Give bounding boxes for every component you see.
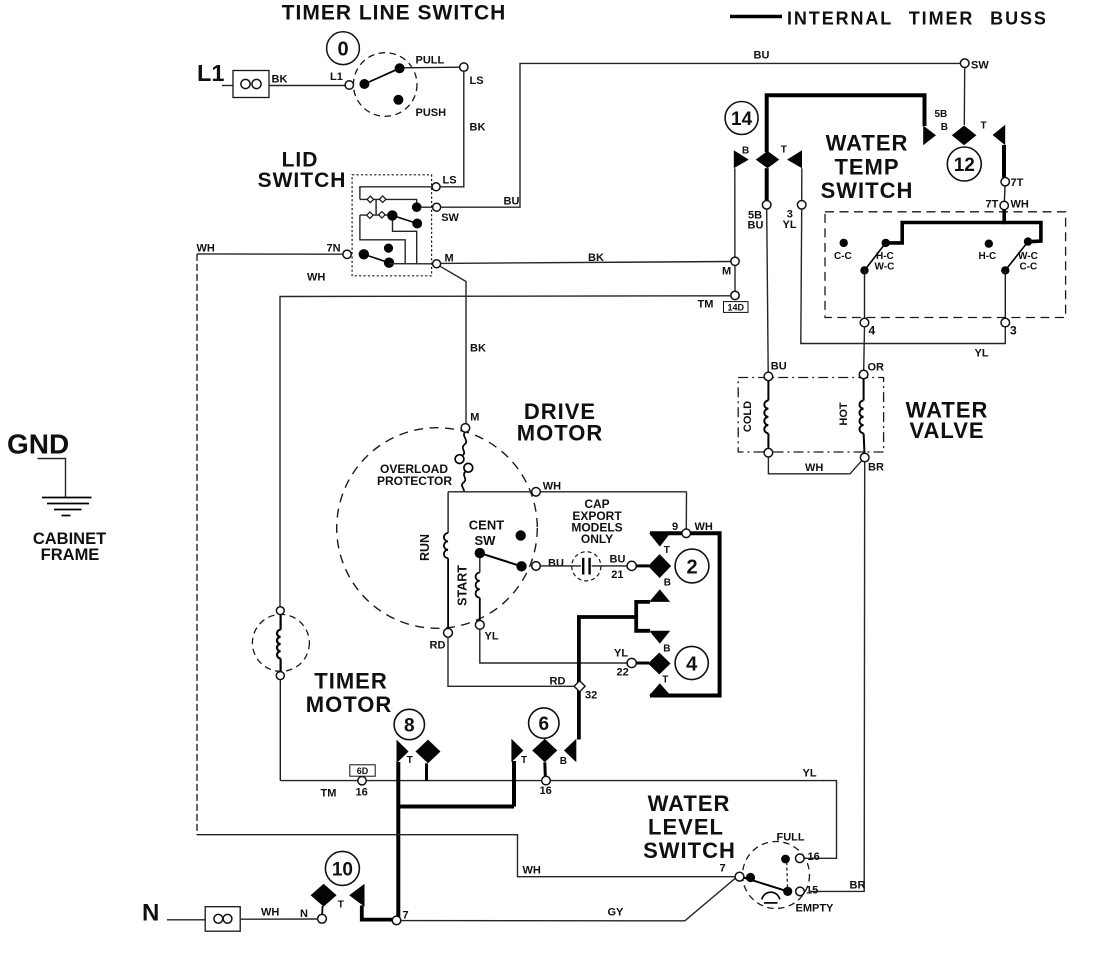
node 7 bottom xyxy=(392,916,401,925)
wire BK M down to motor xyxy=(440,266,466,424)
wire to LS xyxy=(405,66,460,69)
svg-text:YL: YL xyxy=(803,768,817,780)
svg-text:CENT: CENT xyxy=(469,518,504,533)
wire GY node7 to water level xyxy=(401,878,736,921)
svg-text:WH: WH xyxy=(307,272,325,284)
node L1 xyxy=(345,81,353,89)
node WH motor xyxy=(532,488,541,497)
svg-text:BU: BU xyxy=(548,558,564,570)
buss diamond6 stub xyxy=(543,762,547,776)
capacitor plates xyxy=(583,558,589,575)
pressure dome xyxy=(762,892,780,899)
svg-text:L1: L1 xyxy=(330,71,343,83)
buss wire contact14 to contact12 xyxy=(767,95,925,152)
node OR valve xyxy=(859,370,868,379)
contact dot H-C W-C xyxy=(882,239,890,247)
wire L1 lead xyxy=(222,85,233,87)
svg-text:M: M xyxy=(722,266,731,278)
svg-text:PUSH: PUSH xyxy=(416,107,447,119)
contact 6 left triangle xyxy=(511,739,523,763)
wire BU to water valve xyxy=(767,209,769,372)
wire lid bottom to M xyxy=(389,263,433,265)
ground symbol xyxy=(42,498,92,516)
wire SW down to contact 12 xyxy=(963,68,965,126)
svg-text:LEVEL: LEVEL xyxy=(648,815,724,840)
contact dot full xyxy=(781,855,790,864)
svg-text:WATER: WATER xyxy=(826,131,909,156)
wire YL to node 22 xyxy=(480,629,627,663)
dashed link full empty xyxy=(786,862,789,888)
svg-text:RUN: RUN xyxy=(418,534,432,561)
wire pivot to START coil xyxy=(479,558,481,573)
connector plug L1 xyxy=(233,71,269,98)
node 3 temp xyxy=(1001,318,1010,327)
node 32 diamond xyxy=(574,681,585,692)
wire WH plug to N node xyxy=(240,918,318,920)
svg-text:16: 16 xyxy=(808,851,820,863)
contact terminal small diamond d xyxy=(379,212,386,219)
lever 7N xyxy=(364,254,389,262)
contact 2 diamond xyxy=(648,554,671,578)
circle contact 6 xyxy=(529,708,559,738)
svg-text:PULL: PULL xyxy=(416,55,445,67)
contact 12 right triangle xyxy=(993,125,1006,146)
svg-text:22: 22 xyxy=(617,667,629,679)
wire BK L1 to switch xyxy=(269,85,345,87)
contact 12 left triangle xyxy=(923,126,936,146)
wire capacitor to node 21 xyxy=(592,565,627,567)
wire link rows xyxy=(375,199,377,215)
svg-text:32: 32 xyxy=(585,689,597,701)
water temp switch dashed box xyxy=(825,212,1066,318)
wire lid row1 xyxy=(360,187,432,200)
svg-text:0: 0 xyxy=(337,39,348,61)
svg-text:H-C: H-C xyxy=(979,251,997,262)
node 6D xyxy=(358,777,366,785)
wire WH left vertical xyxy=(196,254,198,835)
svg-text:7: 7 xyxy=(403,909,409,921)
contact dot floating xyxy=(384,244,393,253)
svg-text:7T: 7T xyxy=(1011,177,1024,189)
node 9 xyxy=(682,529,691,538)
contact 4 top triangle xyxy=(649,631,670,644)
contact 2 bottom triangle xyxy=(649,589,670,602)
buss branch to contact 6 xyxy=(579,617,638,740)
svg-text:WH: WH xyxy=(543,481,561,493)
svg-text:B: B xyxy=(663,644,670,655)
contact dot empty xyxy=(783,887,792,896)
coil timer motor xyxy=(277,615,281,672)
connector plug N xyxy=(205,907,240,932)
buss diamond8 stub xyxy=(425,763,428,780)
wire RD to node 32 xyxy=(448,637,575,686)
cent sw contact dot xyxy=(516,561,526,571)
svg-text:WH: WH xyxy=(805,462,823,474)
svg-text:TEMP: TEMP xyxy=(834,155,899,180)
contact 6 right triangle xyxy=(564,739,576,763)
contact terminal small diamond b xyxy=(379,196,386,203)
node N xyxy=(318,914,327,923)
lever right temp xyxy=(1005,242,1028,271)
wire BU to capacitor xyxy=(540,565,581,567)
svg-text:SW: SW xyxy=(971,60,989,72)
svg-text:16: 16 xyxy=(356,787,368,799)
svg-text:BU: BU xyxy=(748,220,764,232)
svg-text:6: 6 xyxy=(539,714,550,735)
contact 10 right triangle xyxy=(349,884,364,907)
wire contact14 right triangle down xyxy=(801,168,803,200)
contact dot bottom xyxy=(384,258,394,268)
node M right xyxy=(731,257,739,265)
svg-text:ONLY: ONLY xyxy=(581,532,613,546)
coil RUN xyxy=(444,533,448,628)
contact 10 diamond xyxy=(311,884,337,907)
contact 4 diamond xyxy=(648,653,671,675)
svg-text:BU: BU xyxy=(754,50,770,62)
svg-text:T: T xyxy=(781,145,787,156)
svg-text:WH: WH xyxy=(1011,199,1029,211)
node BU valve xyxy=(764,372,773,381)
buss horizontal 8 to 6 xyxy=(397,805,514,809)
svg-text:EMPTY: EMPTY xyxy=(796,903,835,915)
svg-text:BU: BU xyxy=(610,554,626,566)
coil COLD xyxy=(764,381,768,449)
svg-text:3: 3 xyxy=(1010,324,1017,338)
svg-text:8: 8 xyxy=(404,716,415,737)
svg-text:N: N xyxy=(300,908,308,920)
contact 6 diamond xyxy=(532,739,557,763)
svg-text:YL: YL xyxy=(614,648,628,660)
svg-text:12: 12 xyxy=(954,155,975,176)
wire BU lid SW to temp SW xyxy=(441,63,961,207)
svg-text:7: 7 xyxy=(720,863,726,875)
contact dot row3 xyxy=(387,210,397,220)
node 21 xyxy=(627,561,636,570)
coil START xyxy=(476,573,480,621)
svg-text:15: 15 xyxy=(806,885,818,897)
buss contact8 vertical long xyxy=(396,762,400,919)
contact 4 bottom triangle xyxy=(649,683,670,695)
svg-text:T: T xyxy=(338,900,344,911)
svg-text:PROTECTOR: PROTECTOR xyxy=(377,474,452,488)
buss wire inside temp box left xyxy=(889,223,1004,243)
wire OR node4 to valve xyxy=(863,327,866,370)
svg-text:FULL: FULL xyxy=(777,832,805,844)
svg-text:BK: BK xyxy=(272,74,288,86)
contact dot common left xyxy=(860,266,868,274)
buss stub node21 to diamond2 xyxy=(637,564,650,567)
svg-text:LS: LS xyxy=(470,75,484,87)
contact dot H-C xyxy=(985,240,993,248)
node 7N xyxy=(343,250,351,258)
wire WH to water level xyxy=(197,835,735,877)
svg-text:2: 2 xyxy=(686,556,697,578)
node 15 xyxy=(796,887,805,896)
svg-text:14D: 14D xyxy=(727,302,744,312)
lever left temp xyxy=(865,243,886,271)
circle contact 10 xyxy=(325,851,359,885)
contact dot PULL xyxy=(395,63,405,73)
svg-text:BK: BK xyxy=(588,252,604,264)
node 7 waterlevel xyxy=(735,872,744,881)
svg-text:GY: GY xyxy=(608,906,625,918)
svg-text:C-C: C-C xyxy=(1020,262,1038,273)
buss stub contact12 right down xyxy=(1002,145,1006,178)
svg-text:T: T xyxy=(407,755,413,766)
svg-text:7N: 7N xyxy=(327,243,341,255)
wire M to TM xyxy=(734,266,736,292)
wire lid path A xyxy=(360,215,405,264)
svg-text:4: 4 xyxy=(869,324,876,338)
buss contact6 T stub xyxy=(512,761,516,807)
buss step between contacts xyxy=(636,602,650,631)
node RD motor xyxy=(444,628,453,637)
capacitor dashed circle xyxy=(572,552,601,581)
switch lever pivot dot xyxy=(359,79,369,89)
svg-text:T: T xyxy=(521,755,527,766)
wire common left to node 4 xyxy=(864,270,866,318)
svg-text:9: 9 xyxy=(672,521,678,533)
svg-text:W-C: W-C xyxy=(1018,251,1038,262)
node timer motor top xyxy=(276,607,284,615)
wire left to RUN coil xyxy=(447,492,449,533)
svg-text:SWITCH: SWITCH xyxy=(258,169,347,192)
wire N lead xyxy=(167,919,205,921)
wire to SW node xyxy=(421,206,433,208)
node BU motor xyxy=(532,562,541,571)
svg-text:N: N xyxy=(142,900,159,927)
node YL motor xyxy=(475,621,484,630)
lever row3 xyxy=(392,215,417,223)
svg-text:WATER: WATER xyxy=(648,791,731,816)
svg-text:TM: TM xyxy=(321,788,337,800)
svg-text:HOT: HOT xyxy=(838,402,850,426)
contact terminal small diamond c xyxy=(367,212,374,219)
drive motor dashed circle xyxy=(337,428,538,629)
svg-text:RD: RD xyxy=(430,640,446,652)
lid switch dashed box xyxy=(352,175,432,276)
svg-text:COLD: COLD xyxy=(742,401,754,432)
contact 8 diamond xyxy=(416,740,441,764)
svg-text:MOTOR: MOTOR xyxy=(306,692,392,717)
boxed label 6D xyxy=(350,765,375,776)
node SW temp xyxy=(960,59,969,68)
wire TM YL horizontal xyxy=(280,781,836,859)
svg-text:14: 14 xyxy=(731,109,753,130)
contact dot SW xyxy=(412,202,422,212)
water level dashed circle xyxy=(743,842,810,909)
node 16 full xyxy=(796,854,805,863)
legend thick line INTERNAL TIMER BUSS xyxy=(730,15,782,19)
wire BK M to M right xyxy=(441,262,731,264)
contact 14 left triangle xyxy=(734,150,749,168)
contact 2 top triangle xyxy=(649,533,670,546)
contact dot floating cent xyxy=(516,530,526,540)
svg-text:10: 10 xyxy=(332,860,353,881)
wire WH down to node 9 xyxy=(685,492,687,529)
lever pivot dot xyxy=(746,873,755,882)
svg-text:W-C: W-C xyxy=(875,262,895,273)
contact dot W-C C-C xyxy=(1024,237,1032,245)
wire common right to node 3 xyxy=(1004,270,1006,318)
boxed label 14D xyxy=(724,302,749,313)
node 3 YL xyxy=(797,201,806,210)
svg-text:T: T xyxy=(981,121,987,132)
overload squiggle lower xyxy=(462,472,466,492)
wire lid row3 xyxy=(360,214,388,216)
switch lever xyxy=(364,68,399,84)
wire timer motor to TM line xyxy=(279,680,281,781)
node BR valve xyxy=(860,453,869,462)
svg-text:BK: BK xyxy=(470,122,486,134)
node 5B BU xyxy=(762,201,771,210)
svg-text:M: M xyxy=(470,412,479,424)
wire diamond10 to N node xyxy=(321,906,324,915)
svg-text:B: B xyxy=(664,578,671,589)
coil HOT xyxy=(859,379,864,454)
buss stub below diamond 14 xyxy=(765,168,769,201)
circle contact 14 xyxy=(725,102,758,135)
node SW xyxy=(433,203,441,211)
circle contact 12 xyxy=(947,147,981,181)
contact 14 right triangle xyxy=(787,150,802,168)
svg-text:C-C: C-C xyxy=(834,251,852,262)
svg-text:TIMER: TIMER xyxy=(314,669,387,694)
svg-text:B: B xyxy=(742,146,749,157)
svg-text:7T: 7T xyxy=(986,199,999,211)
wire WH 7N left xyxy=(197,253,343,255)
wire contact14 left triangle down to node M xyxy=(734,168,736,257)
ground wire xyxy=(38,459,66,498)
node 7T WH xyxy=(1000,201,1008,209)
svg-text:TIMER LINE SWITCH: TIMER LINE SWITCH xyxy=(282,2,507,25)
svg-text:B: B xyxy=(941,122,948,133)
water valve dashed box xyxy=(738,378,883,453)
node LS lid xyxy=(432,183,440,191)
svg-text:LS: LS xyxy=(443,175,457,187)
contact 14 diamond xyxy=(756,151,780,168)
node 22 xyxy=(627,658,636,667)
wire BR long vertical xyxy=(809,462,865,892)
svg-text:YL: YL xyxy=(485,631,499,643)
node TM xyxy=(731,291,739,299)
circle contact 4 xyxy=(675,646,708,679)
contact dot C-C xyxy=(840,239,848,247)
cent sw pivot dot xyxy=(475,548,485,558)
svg-text:RD: RD xyxy=(550,675,566,687)
svg-text:SW: SW xyxy=(475,533,497,548)
svg-text:GND: GND xyxy=(7,429,69,460)
buss stub node22 to diamond4 xyxy=(637,662,650,665)
contact dot PUSH xyxy=(393,95,403,105)
wire lid path B xyxy=(393,220,417,264)
svg-text:YL: YL xyxy=(975,348,989,360)
wire TM line from node TM to timer motor xyxy=(280,296,731,607)
svg-text:BU: BU xyxy=(771,361,787,373)
buss wire inside temp box xyxy=(1004,210,1041,242)
svg-text:6D: 6D xyxy=(357,766,369,776)
wire lid row2 xyxy=(360,199,417,203)
lever water level xyxy=(744,878,788,892)
contact dot common right xyxy=(1001,266,1009,274)
pressure dome base xyxy=(764,902,778,904)
svg-text:WH: WH xyxy=(197,243,215,255)
timer motor dashed circle xyxy=(252,614,309,671)
svg-text:5B: 5B xyxy=(935,109,948,120)
cent sw lever xyxy=(480,553,522,566)
overload circle 2 xyxy=(464,463,473,472)
svg-text:BR: BR xyxy=(868,462,884,474)
buss contact10 stub xyxy=(362,906,392,920)
wire WH motor top xyxy=(448,491,686,493)
circle contact 8 xyxy=(394,709,424,739)
wire WH valve bottom xyxy=(768,457,861,474)
overload protector squiggle xyxy=(463,432,467,455)
wire YL to node 3 temp xyxy=(801,209,1006,343)
svg-text:BK: BK xyxy=(470,343,486,355)
svg-text:INTERNAL TIMER BUSS: INTERNAL TIMER BUSS xyxy=(787,9,1048,29)
svg-text:WH: WH xyxy=(523,865,541,877)
svg-text:21: 21 xyxy=(611,569,623,581)
buss loop contacts 2 4 xyxy=(650,533,720,695)
contact dot row3 end xyxy=(412,219,422,229)
overload circle 1 xyxy=(455,455,464,464)
svg-text:SWITCH: SWITCH xyxy=(643,838,736,863)
svg-text:VALVE: VALVE xyxy=(909,418,984,443)
svg-text:YL: YL xyxy=(783,219,797,231)
svg-text:FRAME: FRAME xyxy=(41,546,100,564)
node LS xyxy=(460,63,468,71)
svg-text:WH: WH xyxy=(261,907,279,919)
node M motor xyxy=(461,424,470,433)
contact dot 7N xyxy=(359,249,369,259)
svg-text:TM: TM xyxy=(698,298,714,310)
node timer motor bottom xyxy=(276,672,284,680)
node 7T upper xyxy=(1001,178,1009,186)
wire BK LS down to lid switch xyxy=(440,71,464,187)
svg-text:BR: BR xyxy=(850,879,866,891)
svg-text:T: T xyxy=(662,674,668,685)
svg-text:WH: WH xyxy=(695,521,713,533)
circle contact 2 xyxy=(675,549,709,583)
svg-text:SWITCH: SWITCH xyxy=(821,178,914,203)
svg-text:BU: BU xyxy=(504,196,520,208)
node cold bottom xyxy=(764,448,773,457)
svg-text:SW: SW xyxy=(441,212,459,224)
wire 7T link xyxy=(1003,186,1006,201)
contact terminal small diamond a xyxy=(367,196,374,203)
circle contact 0 xyxy=(327,32,360,65)
contact 12 diamond xyxy=(952,126,977,146)
svg-text:T: T xyxy=(664,545,670,556)
svg-text:L1: L1 xyxy=(197,60,224,86)
svg-text:OR: OR xyxy=(868,362,885,374)
timer line switch dashed circle xyxy=(353,53,417,117)
svg-text:16: 16 xyxy=(540,785,552,797)
contact 8 left triangle xyxy=(397,740,409,764)
node 4 xyxy=(860,318,869,327)
svg-text:4: 4 xyxy=(686,653,698,675)
svg-text:B: B xyxy=(560,756,567,767)
svg-text:MOTOR: MOTOR xyxy=(517,421,603,446)
node 16 contact6 xyxy=(542,776,551,785)
node M lid xyxy=(433,260,441,268)
svg-text:START: START xyxy=(456,565,470,606)
